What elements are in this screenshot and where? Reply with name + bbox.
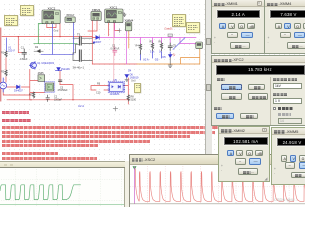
- diode D3 (blue, down): [55, 68, 70, 72]
- diode D6 (blue, down, output): [125, 73, 139, 82]
- wire: opto input pair (red): [91, 86, 109, 90]
- instrument window: multimeter XMM5: [271, 127, 307, 185]
- oscilloscope icon XSC2: [42, 6, 60, 23]
- wire: primary HV rail down right of T1 (red): [91, 21, 93, 64]
- comment note B (yellow sticky): [20, 5, 34, 16]
- XSC2 cursor line (magenta): [134, 166, 136, 203]
- comment note A (yellow sticky): [4, 15, 18, 26]
- wire: output sense (pale pink probe): [113, 22, 115, 82]
- wire: load return (orange): [129, 31, 200, 64]
- wire: XMM4 branch (magenta): [127, 31, 196, 64]
- transformer T1 winding stubs: [73, 38, 94, 60]
- comment text: paragraph line 5: [2, 135, 190, 138]
- multimeter icon XMM1: [91, 8, 101, 21]
- optocoupler U3 (green box): [38, 72, 45, 81]
- LED D5 (blue, down) with current marks: [163, 54, 176, 59]
- wire: XFC2 probe (blue): [52, 22, 73, 54]
- comment note F (yellow sticky near U5): [134, 83, 142, 94]
- grapher plot area (green traces): [0, 168, 125, 207]
- resistor R6: [159, 40, 163, 51]
- wire: XSC1 probe drops (red): [109, 22, 120, 36]
- sheet border (red page frame): [0, 28, 2, 101]
- wire: left feedback branch (red): [18, 37, 22, 53]
- resistor R1 (startup, vertical): [1, 51, 7, 57]
- capacitor C1 (snubber): [20, 46, 28, 61]
- capacitor C5 (electrolytic label): [58, 80, 69, 92]
- wire: opto output / divider (red): [123, 78, 128, 104]
- resistor R4 (output divider): [136, 44, 142, 54]
- capacitor C9: [168, 43, 176, 51]
- wire: XMM1 left pin drop (red): [88, 21, 97, 38]
- instrument window: multimeter XMM4: [264, 0, 307, 54]
- wire: start-up resistor chain (red): [3, 58, 31, 95]
- wire: XSC1 chB drop (magenta): [113, 22, 115, 38]
- wire: secondary bottom rail (red): [92, 63, 137, 65]
- XSC2 time axis: [130, 203, 305, 205]
- comment text: paragraph line 6: [2, 140, 150, 143]
- transformer T1 core bars: [79, 37, 81, 61]
- comment text: paragraph line 7: [2, 144, 98, 147]
- wire: feedback diagonal (blue): [173, 38, 185, 50]
- comment text: paragraph line 8: [2, 152, 58, 155]
- canvas vertical scrollbar: [205, 0, 213, 155]
- resistor R8 (divider, vertical): [127, 95, 137, 101]
- XSC2 plot gridlines: [130, 166, 305, 204]
- wire: output filter drops (magenta verticals): [141, 38, 171, 44]
- XSC2 trace (red pulse train): [135, 169, 310, 202]
- comment text: title line 2: [2, 119, 31, 122]
- ground symbol right of XSC1: [122, 13, 127, 17]
- oscilloscope icon XSC1: [105, 5, 123, 22]
- junction dots on rails: [18, 36, 74, 100]
- wire: AC mains net (red, top rail): [2, 36, 92, 38]
- optocoupler U4 (green box, selected): [44, 82, 54, 92]
- node: junction + marks (gray): [113, 29, 121, 111]
- resistor R3 (base, vertical): [29, 92, 35, 98]
- capacitor C3 (selected pink): [111, 44, 120, 55]
- wire: divider mids (blue): [141, 52, 171, 60]
- wire: base drive row (red): [7, 70, 45, 100]
- node: secondary junction (blue dot): [93, 42, 95, 44]
- grapher gridlines: [1, 169, 124, 206]
- wire: scope ch ground (green): [34, 24, 77, 44]
- ground symbol under output rail: [168, 58, 172, 68]
- comment text: paragraph line 9: [2, 157, 97, 160]
- comment note D (yellow sticky): [186, 22, 200, 33]
- schematic canvas dot grid: [0, 0, 305, 165]
- comment text: paragraph line 4: [2, 131, 215, 134]
- multimeter icon XMM4: [125, 18, 134, 30]
- grapher trace channel B (flat green): [0, 204, 124, 206]
- wire: emitter leg (red): [60, 71, 73, 100]
- diode D7 (blue, right, base loop): [14, 85, 23, 92]
- instrument window: multimeter XMM1: [211, 0, 265, 54]
- diode D2 (black, horizontal): [34, 46, 43, 53]
- oscilloscope window XSC2: [129, 154, 306, 210]
- comment text: paragraph line 3: [2, 126, 218, 129]
- resistor R2 (vertical): [1, 70, 7, 76]
- wire: secondary rectifier node (magenta horizontal): [99, 37, 196, 39]
- red net flag Gate01: [165, 28, 174, 38]
- transistor U1 MJE13003 (blue circle symbol): [30, 62, 37, 70]
- grapher window top bar (green plot frame): [0, 161, 125, 168]
- watermark: [274, 197, 298, 202]
- wire: snubber top (red): [59, 24, 61, 37]
- ground symbol below D6: [125, 78, 128, 81]
- opto-driver U5 (blue outlined box, selected): [108, 78, 125, 96]
- wire: XSC2 chB probe (blue): [51, 24, 53, 55]
- instrument window: frequency counter XFC2: [211, 55, 307, 126]
- wire: under XSC2 icon (red bracket): [47, 24, 56, 28]
- instrument window: multimeter XMM2: [218, 126, 271, 183]
- diode D1 (blue, right, on mains): [93, 36, 102, 45]
- comment text: title line 1: [2, 111, 29, 114]
- resistor R5: [150, 40, 154, 51]
- frequency counter icon XFC2: [65, 13, 75, 22]
- multimeter icon XMM5 (load meter): [196, 42, 203, 49]
- comment note C (yellow sticky): [172, 14, 186, 27]
- grapher trace channel A (green square wave): [0, 185, 81, 200]
- AC source V1: [0, 78, 7, 92]
- XSC2 trigger marker (green): [133, 166, 137, 169]
- wire: bottom ground rail (red): [7, 99, 128, 101]
- wire: aux winding tap (blue): [6, 38, 52, 54]
